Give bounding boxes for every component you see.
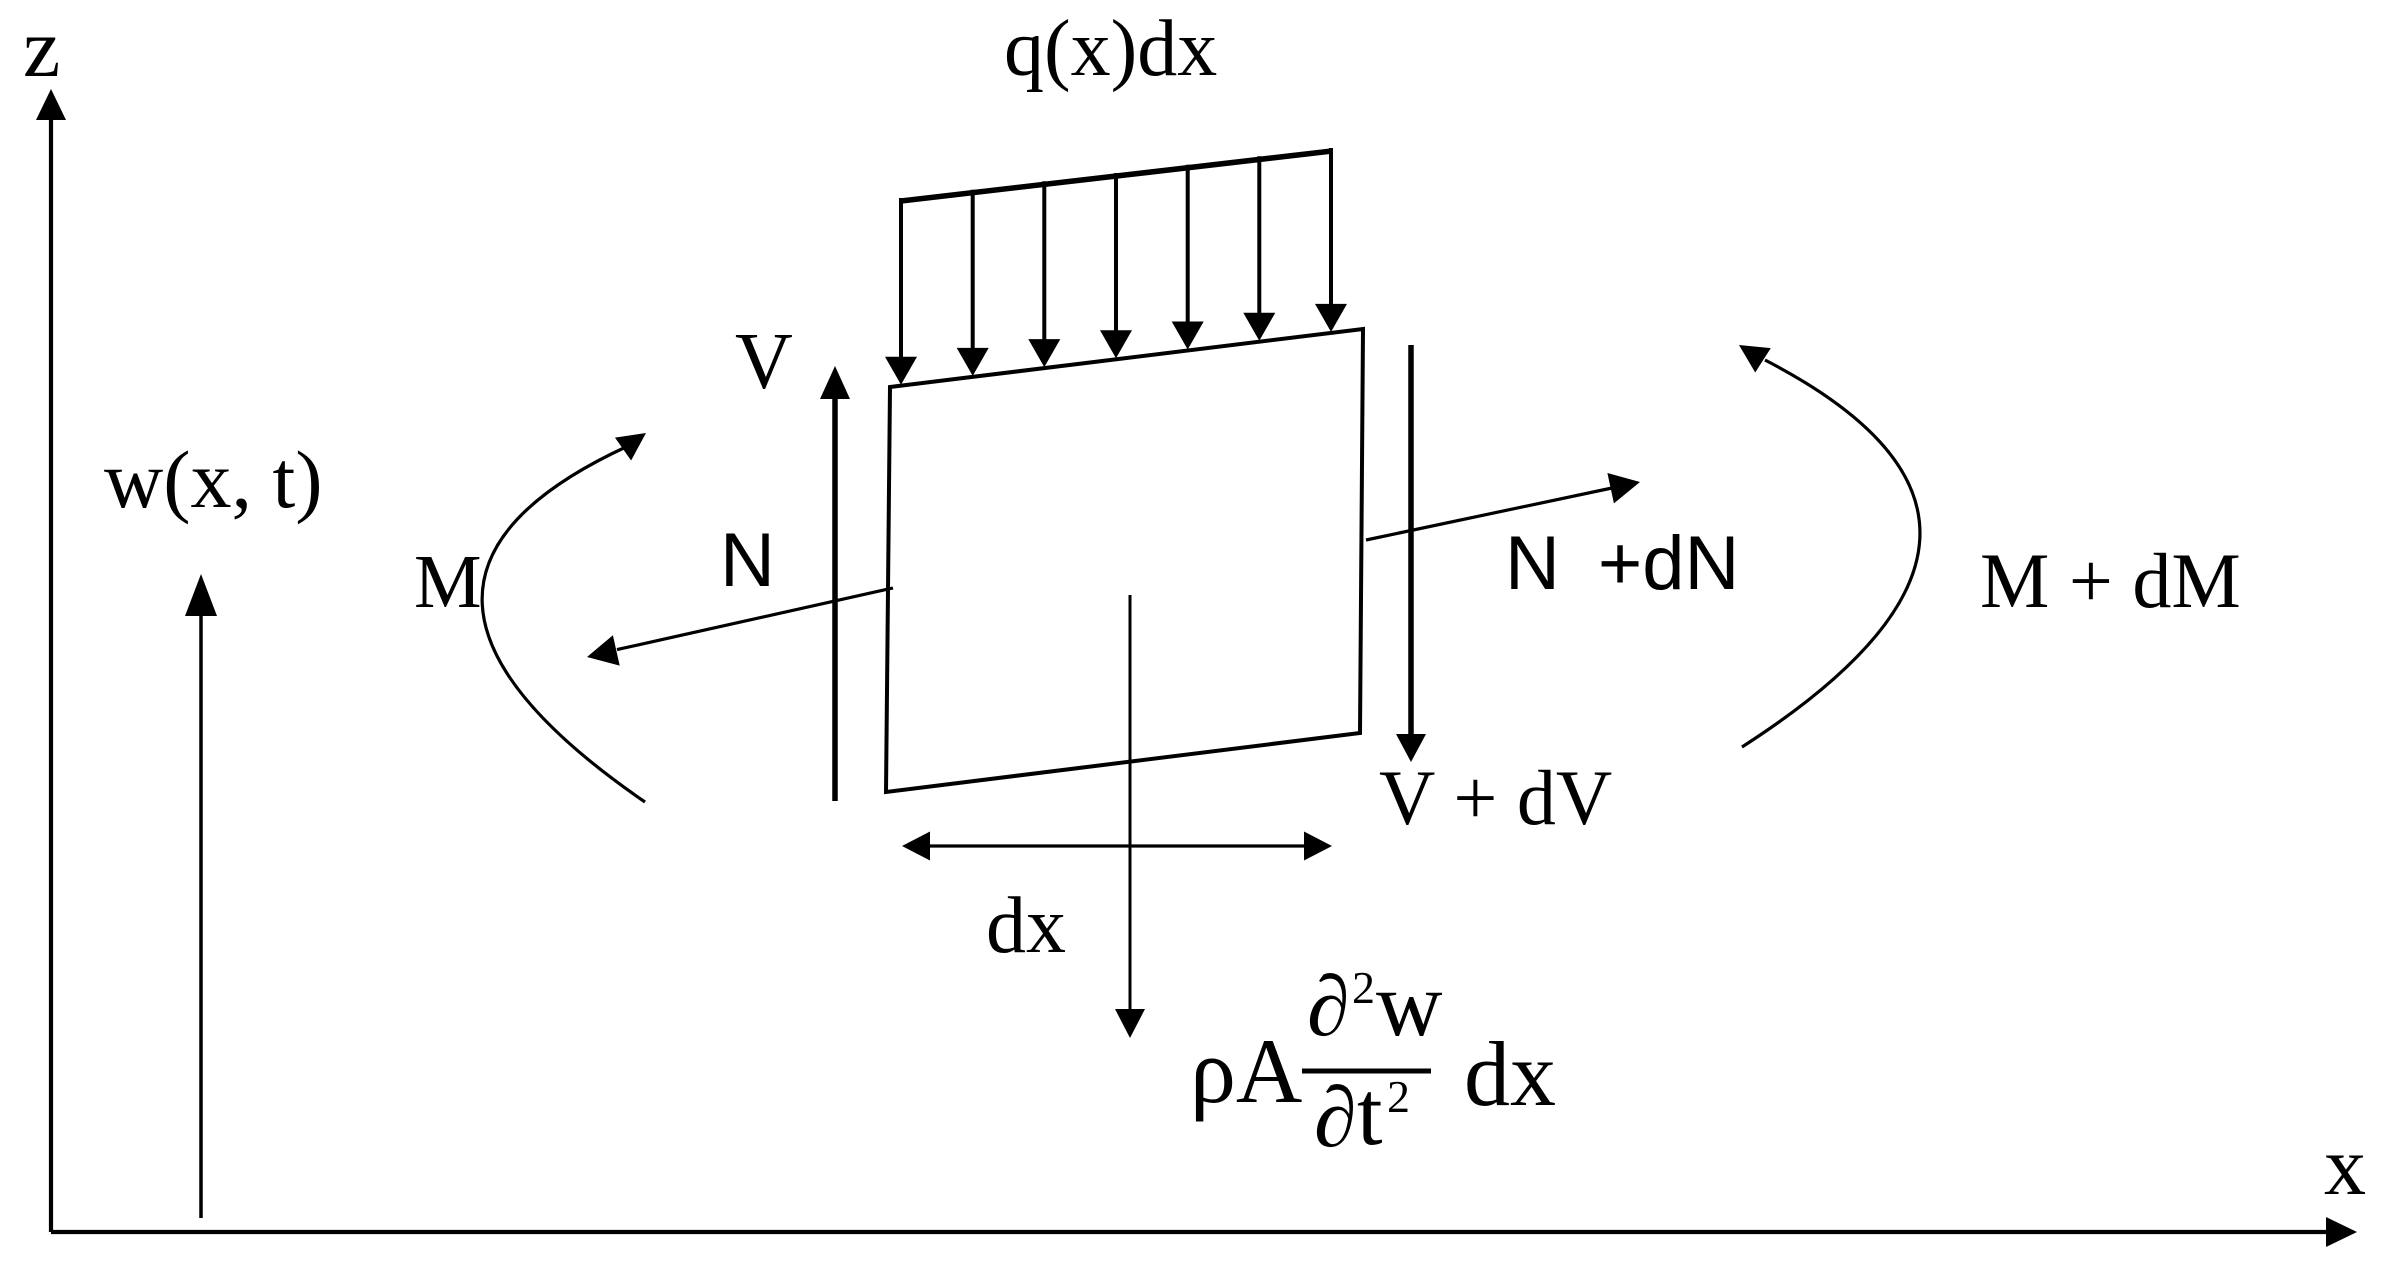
svg-text:ρA: ρA [1190,1020,1302,1122]
svg-text:2: 2 [1352,962,1375,1013]
axial force N+dN arrow [1366,473,1640,540]
svg-text:x: x [2324,1120,2366,1213]
shear V+dV arrow [1396,345,1426,762]
x-axis [51,1217,2357,1247]
z-axis [36,89,66,1232]
dx extent double arrow [902,832,1332,861]
bending moment M+dM curve [1739,345,1920,747]
svg-text:V: V [735,318,793,406]
distributed load q(x)dx [885,148,1347,385]
svg-text:M: M [414,540,482,624]
axial force N arrow [587,588,893,666]
svg-text:w(x, t): w(x, t) [104,434,323,525]
shear V arrow [820,366,850,801]
svg-text:q(x)dx: q(x)dx [1004,5,1217,93]
svg-text:V + dV: V + dV [1379,754,1612,841]
svg-text:dx: dx [1464,1023,1556,1125]
bending moment M curve [482,433,646,802]
svg-text:dx: dx [986,882,1066,970]
label rho A d2w/dt2 dx [1190,953,1556,1165]
svg-text:2: 2 [1387,1071,1410,1122]
svg-text:∂: ∂ [1314,1069,1357,1165]
svg-text:∂: ∂ [1307,958,1350,1054]
svg-text:N +dN: N +dN [1505,521,1739,606]
inertia force arrow (down from centroid) [1115,595,1145,1038]
w(x,t) deflection arrow [185,574,217,1218]
svg-text:z: z [23,2,60,95]
svg-text:N: N [720,518,775,603]
svg-text:t: t [1357,1062,1383,1164]
svg-text:M + dM: M + dM [1980,537,2241,624]
svg-text:w: w [1376,953,1443,1055]
beam element [886,329,1363,792]
